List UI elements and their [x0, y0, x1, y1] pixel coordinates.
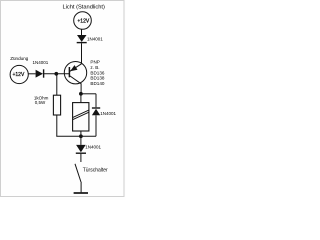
svg-text:BD138: BD138: [90, 76, 104, 81]
svg-text:Zündung: Zündung: [10, 56, 29, 61]
svg-text:BD136: BD136: [90, 70, 104, 75]
svg-text:BD140: BD140: [90, 81, 104, 86]
svg-text:1N4001: 1N4001: [87, 37, 103, 42]
svg-text:Licht (Standlicht): Licht (Standlicht): [63, 4, 105, 10]
svg-text:z. B.: z. B.: [90, 65, 99, 70]
svg-text:1N4001: 1N4001: [85, 145, 101, 150]
svg-text:+12V: +12V: [12, 72, 24, 78]
svg-text:0,5W: 0,5W: [35, 100, 46, 105]
svg-text:Türschalter: Türschalter: [83, 167, 108, 173]
svg-text:+12V: +12V: [77, 19, 89, 25]
svg-text:1N4001: 1N4001: [33, 60, 49, 65]
svg-text:1N4001: 1N4001: [100, 111, 116, 116]
svg-text:PNP: PNP: [90, 59, 99, 64]
